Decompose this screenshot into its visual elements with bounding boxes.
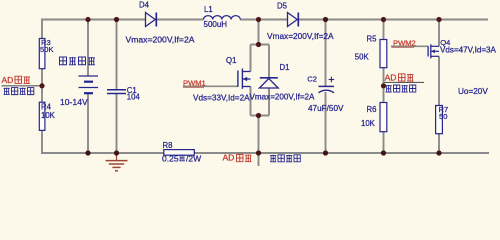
value label D5 Vmax	[267, 31, 334, 41]
svg-text:D1: D1	[280, 63, 290, 72]
svg-text:Uo=20V: Uo=20V	[458, 87, 488, 96]
value label Q1 Vds	[193, 93, 250, 102]
wire C1 column lower	[116, 94, 118, 154]
svg-text:D5: D5	[277, 1, 288, 10]
junction node C2 top	[323, 17, 328, 22]
value label 0.25ohm/2W	[162, 153, 201, 163]
svg-text:Vmax=200V,If=2A: Vmax=200V,If=2A	[126, 35, 195, 45]
svg-text:PWM2: PWM2	[393, 39, 416, 48]
wire top rail segment 4	[298, 19, 488, 21]
wire bottom rail right	[194, 152, 489, 154]
wire battery column upper	[87, 20, 89, 77]
junction node battery top	[85, 17, 90, 22]
net label AD sense bottom (AD + hanzi)	[223, 152, 252, 162]
svg-text:/2W: /2W	[186, 153, 201, 163]
resistor R6	[361, 103, 387, 132]
junction node bridge bar bottom	[256, 113, 261, 118]
wire R5 column top	[383, 20, 385, 40]
resistor R8	[163, 141, 195, 155]
wire D1 cathode lead	[268, 45, 270, 78]
net label PWM2	[392, 39, 416, 48]
wire top rail segment 2	[157, 19, 204, 21]
value label 10-14V	[60, 97, 88, 107]
capacitor C2 (polarized)	[307, 75, 334, 93]
svg-text:0.25: 0.25	[162, 153, 179, 163]
junction node Q4 top	[436, 17, 441, 22]
wire bridge bottom bar	[251, 115, 270, 117]
svg-text:AD: AD	[385, 73, 397, 83]
svg-text:Vmax=200V,If=2A: Vmax=200V,If=2A	[267, 31, 334, 41]
wire PWM1 gate wire	[183, 85, 238, 87]
svg-text:50K: 50K	[40, 45, 54, 54]
label PV source (hanzi)	[60, 57, 96, 65]
svg-text:PWM1: PWM1	[183, 79, 206, 88]
junction node ground rail	[114, 150, 119, 155]
junction node right sense	[381, 83, 386, 88]
wire C2 column lower	[325, 92, 327, 153]
transistor Q1 (N-MOSFET)	[226, 56, 251, 89]
svg-text:AD: AD	[2, 75, 14, 85]
resistor R5	[355, 35, 387, 68]
wire Q4 drain lead	[438, 20, 440, 47]
svg-text:C2: C2	[307, 75, 317, 84]
wire D1 anode lead	[268, 88, 270, 116]
net label AD sense right (AD + hanzi)	[384, 73, 424, 83]
junction node bridge bar top	[256, 42, 261, 47]
junction node R5 top	[381, 17, 386, 22]
svg-text:AD: AD	[223, 152, 235, 162]
wire bridge top bar	[251, 44, 270, 46]
ground	[106, 154, 128, 171]
svg-text:R8: R8	[163, 141, 173, 150]
diode D1	[259, 63, 289, 88]
wire bottom rail left	[41, 152, 164, 154]
inductor L1	[204, 5, 241, 29]
svg-text:Vmax=200V,If=2A: Vmax=200V,If=2A	[250, 93, 316, 102]
net label PWM1	[183, 79, 206, 88]
wire R6 column bottom	[383, 132, 385, 154]
svg-text:D4: D4	[139, 0, 150, 9]
wire top rail segment 1	[41, 19, 146, 21]
junction node C2 bottom	[323, 150, 328, 155]
wire bridge stub bottom	[258, 116, 260, 167]
resistor R3	[39, 38, 53, 68]
wire left rail upper	[41, 19, 43, 39]
junction node left sense	[39, 83, 44, 88]
transistor Q4 (N-MOSFET)	[428, 38, 450, 59]
wire Q4 source to R7	[438, 56, 440, 105]
svg-text:R6: R6	[367, 105, 377, 114]
resistor R4	[39, 102, 55, 130]
resistor R7	[436, 105, 449, 134]
value label D1 Vmax	[250, 93, 316, 102]
svg-text:500uH: 500uH	[204, 20, 228, 29]
svg-text:L1: L1	[204, 5, 213, 14]
junction node bridge top	[256, 17, 261, 22]
junction node R7 bottom	[436, 150, 441, 155]
wire Q1 drain lead	[250, 45, 252, 72]
label load voltage (hanzi)	[386, 85, 416, 92]
wire top rail segment 3	[240, 19, 288, 21]
wire bridge stub top	[258, 20, 260, 45]
svg-text:50K: 50K	[355, 53, 370, 62]
capacitor C1	[107, 86, 140, 102]
wire battery column lower	[87, 93, 89, 153]
diode D5	[277, 1, 298, 26]
label supply voltage (hanzi)	[4, 88, 34, 95]
junction node R6 bottom	[381, 150, 386, 155]
wire Q1 source lead	[250, 87, 252, 116]
wire R5-R6 column middle	[383, 68, 385, 103]
svg-text:Vds=47V,Id=3A: Vds=47V,Id=3A	[440, 45, 497, 54]
value label Q4 Vds	[440, 45, 497, 54]
value label C2 47uF/50V	[308, 104, 344, 113]
svg-text:47uF/50V: 47uF/50V	[308, 104, 344, 113]
wire left rail middle	[41, 69, 43, 103]
wire C2 column upper	[325, 20, 327, 87]
label supply current (hanzi)	[270, 155, 300, 162]
svg-text:10-14V: 10-14V	[60, 97, 88, 107]
diode D4	[139, 0, 156, 26]
junction node C1 top	[114, 17, 119, 22]
junction node battery bottom	[85, 150, 90, 155]
net label AD sense left (AD + hanzi)	[2, 75, 42, 86]
wire PWM2 gate wire	[391, 45, 429, 47]
svg-text:Q1: Q1	[226, 56, 236, 65]
label Uo=20V	[458, 87, 488, 96]
wire R7 bottom lead	[438, 134, 440, 154]
battery BT1 photovoltaic source	[79, 76, 99, 93]
svg-text:10K: 10K	[41, 111, 56, 120]
junction node bridge bottom rail	[256, 150, 261, 155]
svg-text:R5: R5	[367, 35, 378, 44]
svg-text:Vds=33V,Id=2A: Vds=33V,Id=2A	[193, 93, 250, 102]
wire left rail lower	[41, 130, 43, 154]
svg-text:104: 104	[127, 92, 141, 101]
wire C1 column upper	[116, 20, 118, 90]
svg-text:50: 50	[439, 112, 447, 121]
value label D4 Vmax	[126, 35, 195, 45]
svg-text:10K: 10K	[361, 119, 376, 128]
